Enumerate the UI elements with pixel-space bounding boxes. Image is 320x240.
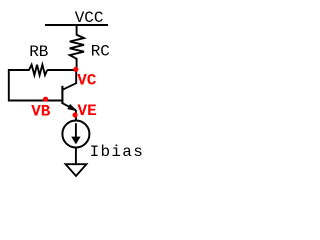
- wire node VC to resistor RB: [47, 69, 76, 71]
- current source arrowhead: [71, 137, 80, 145]
- transistor Q1 emitter: [62, 103, 76, 110]
- transistor Q1 emitter arrowhead: [68, 105, 76, 111]
- svg-text:RC: RC: [91, 42, 110, 60]
- resistor RC: [70, 25, 84, 70]
- ground: [66, 164, 87, 176]
- node VB dot: [43, 97, 48, 102]
- current source arrow shaft: [75, 123, 77, 138]
- transistor Q1 collector: [62, 70, 76, 90]
- node VC dot: [73, 67, 78, 72]
- node VE dot: [73, 112, 78, 117]
- svg-text:VB: VB: [31, 102, 51, 120]
- svg-text:Ibias: Ibias: [90, 143, 145, 161]
- svg-text:VE: VE: [78, 102, 97, 120]
- resistor RB: [29, 65, 47, 75]
- wire node VB to transistor base: [46, 100, 63, 102]
- svg-text:VCC: VCC: [75, 9, 104, 27]
- wire emitter to current source: [75, 111, 77, 121]
- svg-text:VC: VC: [77, 72, 97, 90]
- VCC power rail: [45, 24, 108, 26]
- current source Ibias circle: [62, 121, 89, 148]
- wire current source to ground: [75, 148, 77, 164]
- wire RB left, down and along bottom to node VB: [9, 70, 46, 101]
- transistor Q1 base bar: [61, 86, 63, 104]
- svg-text:RB: RB: [29, 43, 48, 61]
